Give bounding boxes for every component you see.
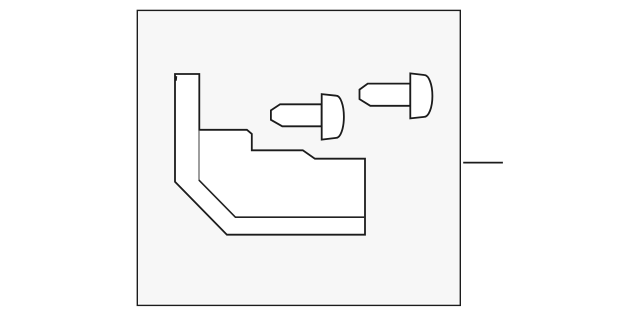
bracket outer outline	[175, 74, 365, 235]
parts-box interior fill	[138, 11, 460, 303]
parts-box border frame	[137, 10, 460, 305]
bolt B2 head	[410, 73, 432, 118]
bolt B1 head	[322, 94, 344, 140]
bracket small tick mark near top-left	[175, 76, 177, 81]
bolt B2 shaft (upper-right bolt)	[360, 84, 411, 106]
leader line (callout)	[463, 162, 503, 164]
bolt B1 shaft (lower-left bolt)	[271, 104, 322, 126]
bracket inner bend line, vertical segment (lighter)	[198, 131, 200, 181]
bracket inner bend line, diagonal and horizontal	[199, 180, 364, 217]
